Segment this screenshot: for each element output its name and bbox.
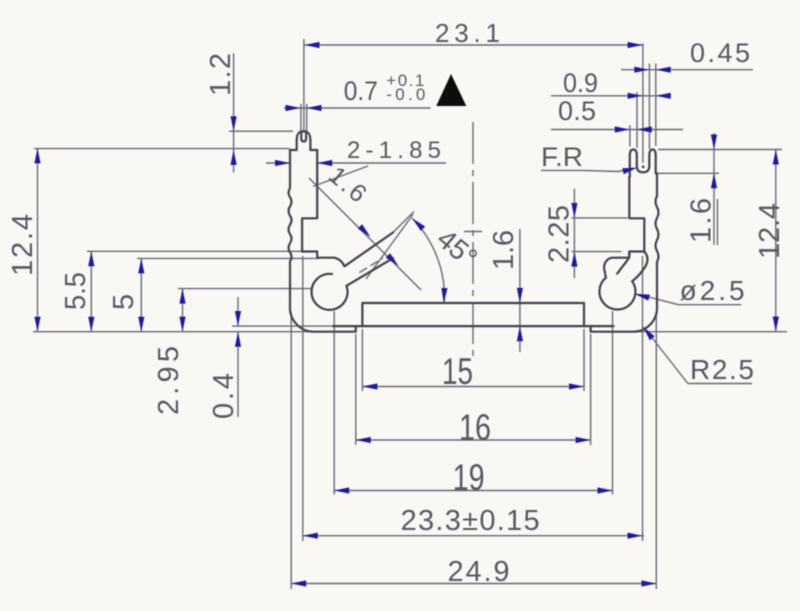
svg-text:23.3±0.15: 23.3±0.15 bbox=[401, 505, 540, 537]
svg-text:0.4: 0.4 bbox=[208, 373, 240, 419]
svg-text:23.1: 23.1 bbox=[435, 18, 500, 48]
svg-text:R2.5: R2.5 bbox=[690, 354, 754, 385]
svg-text:5: 5 bbox=[108, 294, 140, 310]
svg-text:12.4: 12.4 bbox=[7, 214, 39, 276]
svg-text:0.7: 0.7 bbox=[344, 76, 378, 106]
svg-text:F.R: F.R bbox=[541, 142, 583, 172]
svg-text:1.6: 1.6 bbox=[488, 230, 520, 270]
svg-text:5.5: 5.5 bbox=[60, 272, 92, 310]
svg-text:24.9: 24.9 bbox=[448, 556, 510, 588]
svg-text:2.95: 2.95 bbox=[153, 346, 185, 415]
svg-text:16: 16 bbox=[459, 407, 491, 448]
svg-text:0.5: 0.5 bbox=[558, 96, 596, 126]
svg-text:ø2.5: ø2.5 bbox=[680, 275, 745, 306]
svg-text:12.4: 12.4 bbox=[754, 203, 786, 259]
svg-text:2.25: 2.25 bbox=[544, 205, 576, 263]
svg-text:19: 19 bbox=[453, 457, 485, 498]
svg-text:15: 15 bbox=[442, 351, 473, 392]
svg-text:1.6: 1.6 bbox=[686, 198, 718, 243]
svg-text:0.45: 0.45 bbox=[690, 38, 750, 68]
svg-text:0.9: 0.9 bbox=[563, 68, 598, 98]
svg-text:1.2: 1.2 bbox=[205, 53, 237, 96]
